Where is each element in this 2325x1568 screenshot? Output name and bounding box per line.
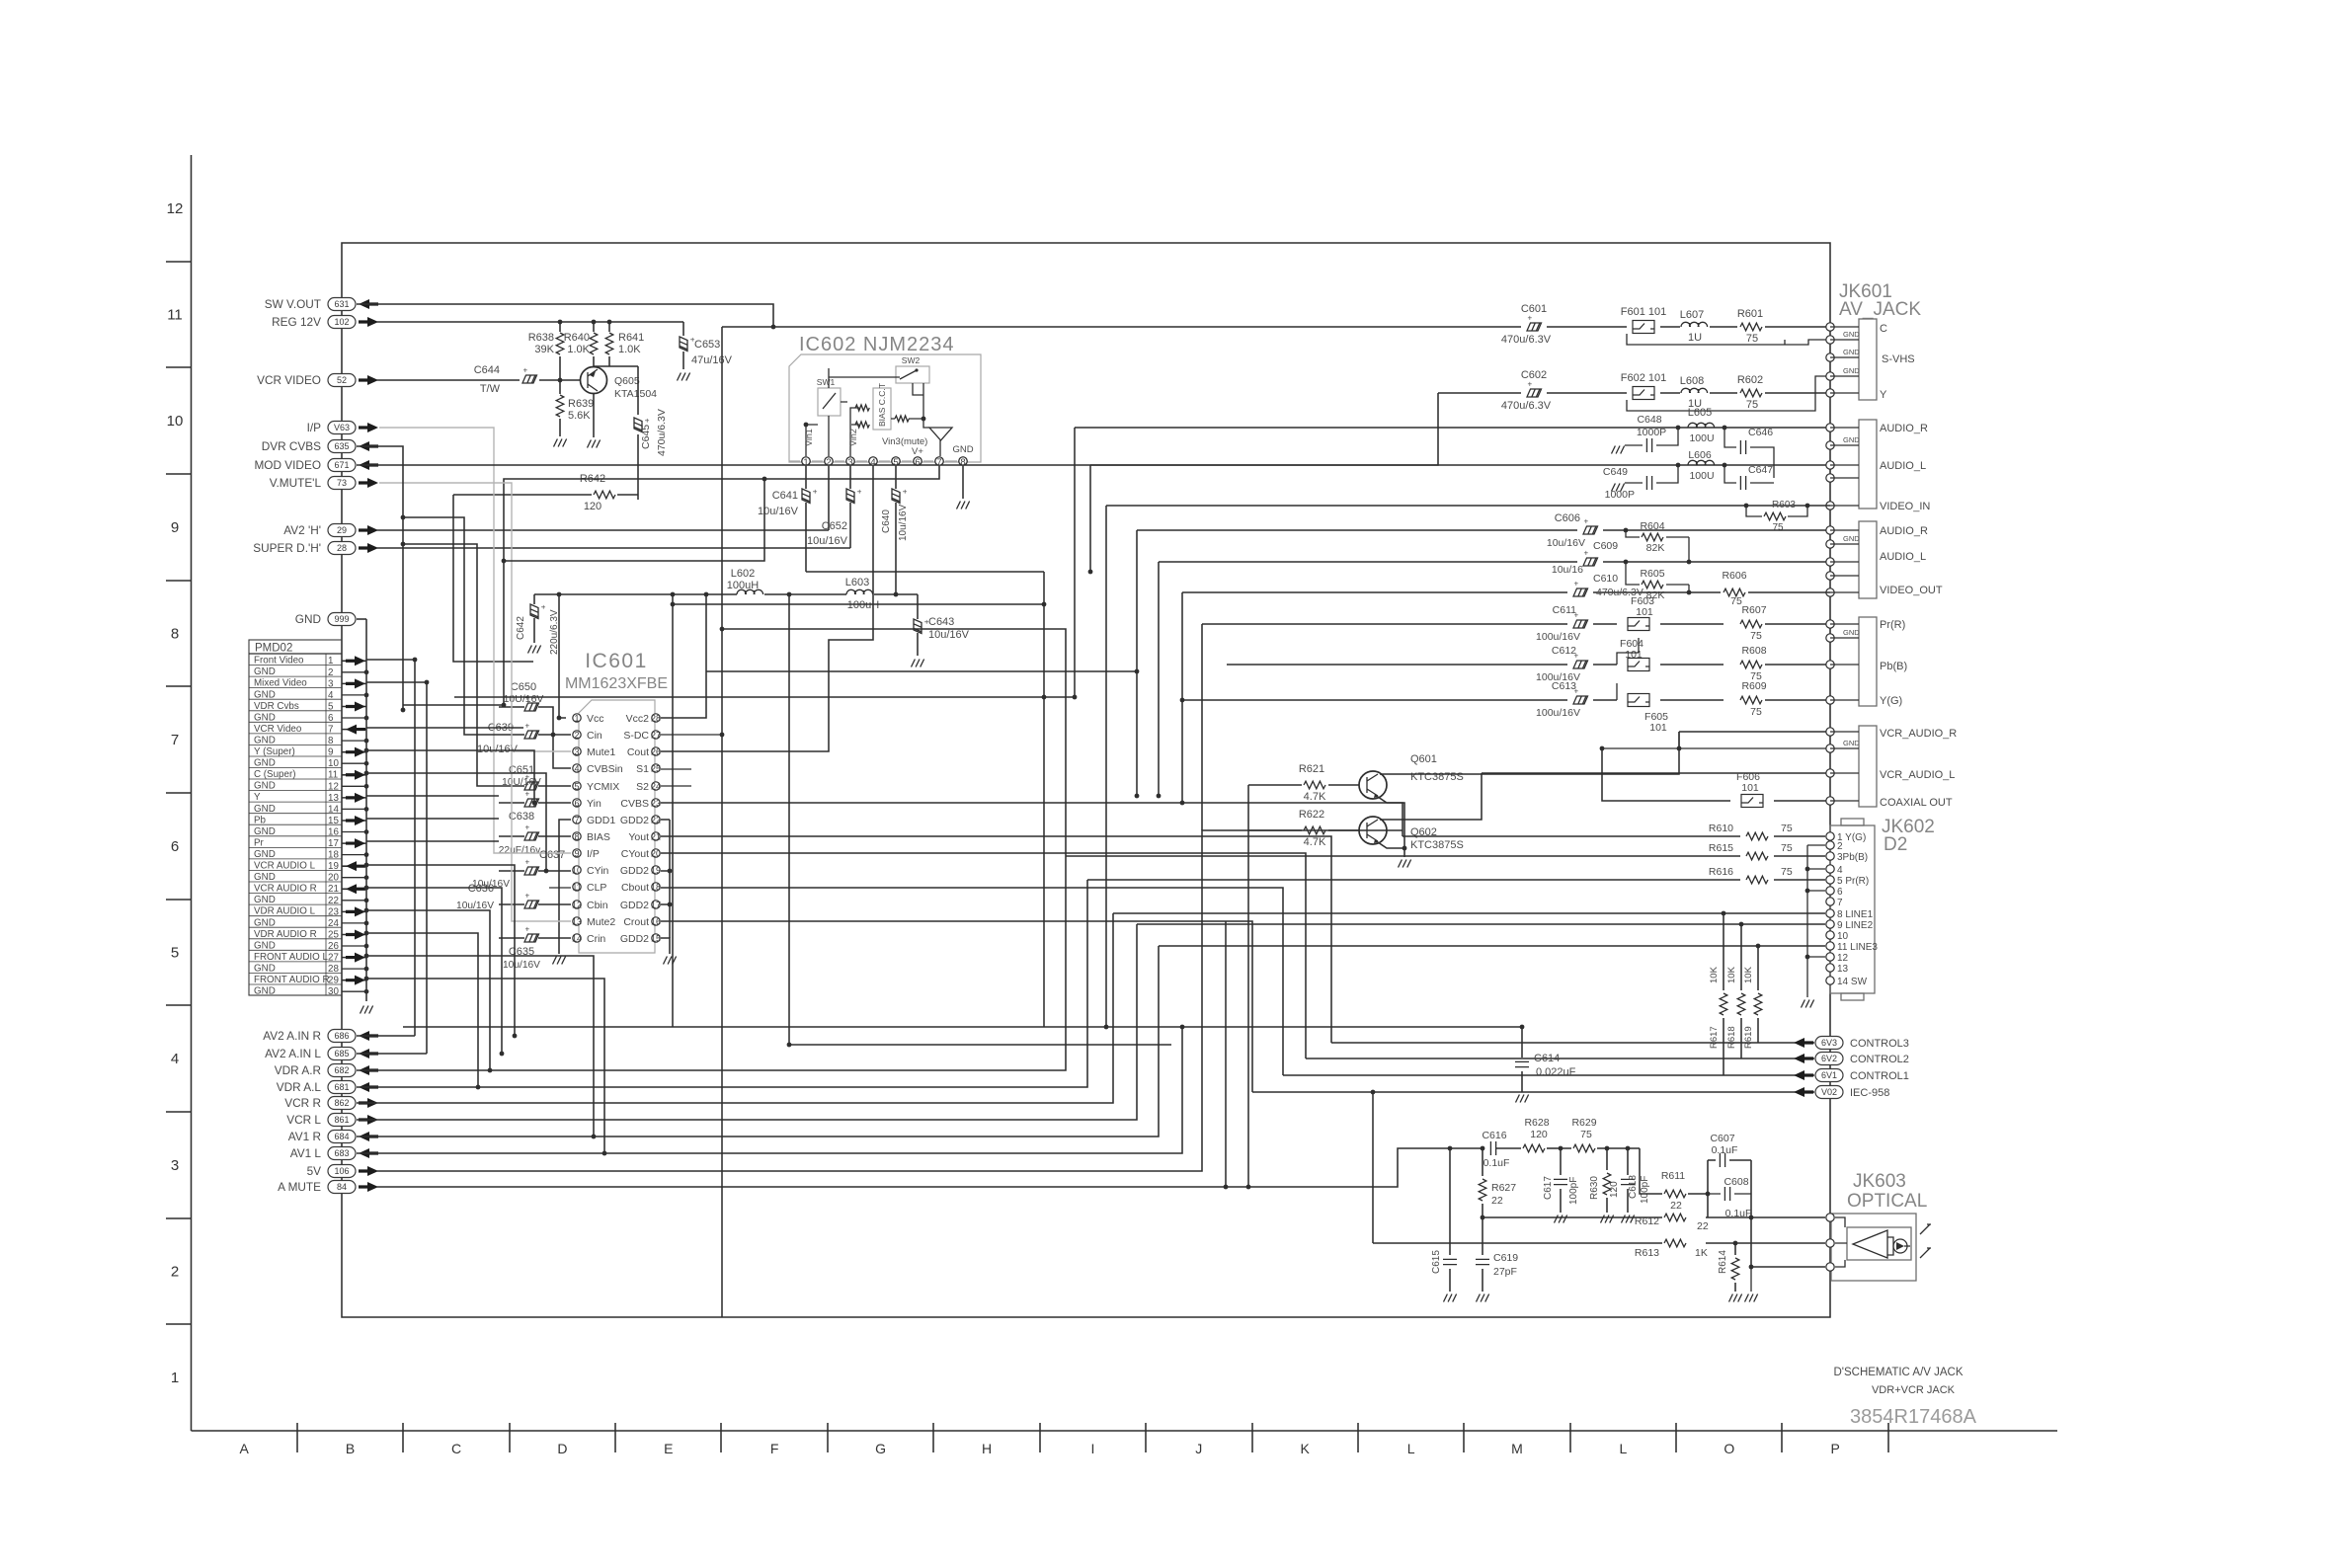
svg-text:VIDEO_OUT: VIDEO_OUT <box>1880 585 1943 596</box>
svg-text:JK603: JK603 <box>1853 1171 1906 1192</box>
wire IC602 pin4 from Cout <box>661 466 873 751</box>
wire R613 row <box>1373 1242 1825 1244</box>
svg-text:3: 3 <box>574 746 579 756</box>
IC601 pin 3 Mute1 <box>573 747 581 755</box>
svg-text:VCR L: VCR L <box>286 1113 321 1127</box>
svg-text:10u/16: 10u/16 <box>1552 564 1583 576</box>
PMD02 pin 11 wire <box>342 774 366 776</box>
PMD02 pin 14 gnd stub <box>342 808 366 810</box>
svg-text:S-DC: S-DC <box>623 730 649 742</box>
port CONTROL2 (6V2) <box>1306 1058 1814 1059</box>
svg-text:H: H <box>982 1441 992 1456</box>
svg-text:GND: GND <box>254 781 276 792</box>
wire branch to C639 <box>403 517 499 735</box>
wire C602 row <box>357 393 1830 465</box>
svg-text:Cout: Cout <box>627 746 649 758</box>
resistor R627 <box>1482 1148 1483 1217</box>
resistor R615 row <box>1066 855 1825 857</box>
svg-text:7: 7 <box>1837 898 1843 908</box>
resistor R608 <box>1740 661 1762 668</box>
svg-text:3854R17468A: 3854R17468A <box>1850 1406 1977 1428</box>
resistor R638 <box>559 322 561 378</box>
svg-text:100pF: 100pF <box>1640 1176 1650 1204</box>
svg-text:5: 5 <box>574 781 579 791</box>
fuse F605 <box>1628 694 1649 707</box>
svg-text:S-VHS: S-VHS <box>1882 353 1915 365</box>
wire pin19 riser <box>366 865 515 1036</box>
svg-text:R612: R612 <box>1635 1215 1659 1227</box>
svg-text:C609: C609 <box>1593 540 1618 552</box>
JK602 pin 5 <box>1826 876 1834 884</box>
ground under IC601 right <box>664 957 677 965</box>
svg-text:CLP: CLP <box>587 882 606 894</box>
capacitor C614 <box>1521 1027 1523 1092</box>
svg-text:11: 11 <box>167 306 183 323</box>
svg-text:2: 2 <box>171 1264 179 1281</box>
svg-text:28: 28 <box>651 713 661 723</box>
wire row 568 <box>504 479 764 561</box>
capacitor C644 <box>376 379 554 381</box>
svg-text:75: 75 <box>1781 866 1793 878</box>
svg-text:C651: C651 <box>509 764 534 776</box>
port CONTROL1 (6V1) <box>1283 1074 1814 1076</box>
svg-text:C615: C615 <box>1431 1250 1442 1274</box>
JK602 pin 9 <box>1826 920 1834 928</box>
svg-text:8: 8 <box>574 831 579 841</box>
svg-text:T/W: T/W <box>480 383 501 395</box>
svg-text:14 SW: 14 SW <box>1837 977 1868 987</box>
IC601 pin 12 Cbin <box>573 901 581 908</box>
JK602 pin 6 <box>1826 887 1834 895</box>
wire pin29 riser <box>366 979 604 1153</box>
svg-text:CVBSin: CVBSin <box>587 763 623 775</box>
svg-text:GND: GND <box>952 444 973 455</box>
gray net I/P to pin9 <box>379 428 571 853</box>
wire IC602 pin1 feed <box>806 571 1044 573</box>
svg-text:1000P: 1000P <box>1605 489 1635 501</box>
svg-text:R614: R614 <box>1718 1250 1728 1274</box>
svg-text:R619: R619 <box>1743 1026 1754 1049</box>
wire AUDIO_R row 2 <box>1137 529 1830 531</box>
transistor Q602 KTC3875S <box>1359 817 1387 844</box>
PMD02 pin 10 gnd stub <box>342 762 366 764</box>
wire F605 link <box>1616 683 1618 700</box>
wire C644 to base <box>554 379 580 381</box>
IC601 pin 24 S2 <box>652 782 660 790</box>
IC601 pin 27 S-DC <box>652 731 660 739</box>
svg-text:R610: R610 <box>1709 823 1733 834</box>
svg-text:Q601: Q601 <box>1410 753 1437 765</box>
svg-text:GND: GND <box>1843 435 1860 444</box>
JK601 jack body 4 <box>1859 617 1877 706</box>
capacitor C601 <box>1527 314 1542 332</box>
JK601 gnd stubs top <box>1830 340 1859 376</box>
svg-text:D'SCHEMATIC A/V JACK: D'SCHEMATIC A/V JACK <box>1833 1367 1963 1378</box>
svg-text:6: 6 <box>1837 887 1843 898</box>
PMD02 pin 25 wire <box>342 934 366 936</box>
capacitor C612 <box>1573 652 1588 669</box>
svg-text:BIAS: BIAS <box>587 831 610 843</box>
svg-text:4: 4 <box>171 1051 179 1067</box>
svg-text:5V: 5V <box>307 1164 322 1178</box>
capacitor C607 loop <box>1708 1160 1751 1267</box>
ground under R639 <box>554 439 567 447</box>
port IEC-958 (V02) <box>1252 1091 1814 1093</box>
PMD02 pin 20 gnd stub <box>342 877 366 879</box>
wire bus x799 <box>789 595 1171 1045</box>
svg-text:VCR Video: VCR Video <box>254 724 302 735</box>
wire VIDEO_OUT row <box>1182 591 1830 593</box>
wire pin23 riser <box>366 910 490 1070</box>
capacitor C635 <box>499 937 571 939</box>
svg-text:27: 27 <box>651 730 661 740</box>
svg-text:5: 5 <box>171 944 179 961</box>
svg-text:C618: C618 <box>1628 1175 1639 1199</box>
wire VCR_AUDIO gnd row <box>1602 747 1830 749</box>
wire C650 to CVBSin pin4 <box>553 735 571 768</box>
svg-text:C601: C601 <box>1521 303 1547 315</box>
svg-text:FRONT AUDIO R: FRONT AUDIO R <box>254 975 330 985</box>
svg-text:VCR R: VCR R <box>284 1096 321 1110</box>
svg-text:FRONT AUDIO L: FRONT AUDIO L <box>254 952 328 963</box>
svg-text:GND: GND <box>1843 348 1860 356</box>
wire AUDIO_R row 1 <box>1075 427 1830 429</box>
wire GDD row stub to bundle <box>1225 921 1227 1187</box>
resistor R619 <box>1757 946 1759 1043</box>
ground under C619 <box>1477 1294 1489 1302</box>
ground under C643 <box>912 660 924 667</box>
svg-text:82K: 82K <box>1646 542 1665 554</box>
wire Q605 collector to R641/C645 <box>594 365 638 367</box>
svg-text:1U: 1U <box>1688 332 1702 344</box>
PMD02 ground bus <box>365 619 367 1001</box>
svg-text:75: 75 <box>1781 842 1793 854</box>
PMD02 pin 3 wire <box>342 682 366 684</box>
svg-text:101: 101 <box>1636 606 1653 618</box>
capacitor C613 <box>1573 687 1588 705</box>
svg-text:100U: 100U <box>1689 470 1714 482</box>
svg-text:C640: C640 <box>881 510 892 533</box>
svg-text:6: 6 <box>915 457 920 468</box>
svg-text:AUDIO_R: AUDIO_R <box>1880 423 1928 434</box>
capacitor C619 <box>1482 1217 1483 1292</box>
JK602 pin 7 <box>1826 898 1834 905</box>
svg-text:CONTROL2: CONTROL2 <box>1850 1054 1909 1065</box>
svg-text:10: 10 <box>572 865 582 875</box>
IC601 pin 4 CVBSin <box>573 764 581 772</box>
ground under Q602 <box>1399 860 1411 868</box>
svg-text:M: M <box>1511 1441 1523 1456</box>
svg-text:23: 23 <box>651 798 661 808</box>
IC601 pin 15 GDD2 <box>652 934 660 942</box>
ground under C642 <box>528 646 541 654</box>
capacitor C610 <box>1573 580 1588 597</box>
svg-text:Mixed Video: Mixed Video <box>254 678 307 689</box>
svg-text:7: 7 <box>171 732 179 748</box>
svg-text:VDR A.L: VDR A.L <box>277 1080 322 1094</box>
PMD02 pin 15 wire <box>342 820 366 822</box>
svg-text:AV2 A.IN L: AV2 A.IN L <box>265 1047 321 1060</box>
svg-text:VCR_AUDIO_L: VCR_AUDIO_L <box>1880 769 1955 781</box>
svg-text:COAXIAL OUT: COAXIAL OUT <box>1880 797 1953 809</box>
svg-text:Vcc2: Vcc2 <box>626 713 650 725</box>
svg-text:VCR AUDIO L: VCR AUDIO L <box>254 861 316 872</box>
svg-text:V63: V63 <box>334 423 350 432</box>
svg-text:3Pb(B): 3Pb(B) <box>1837 852 1868 863</box>
amp triangle inside IC602 <box>929 428 952 440</box>
svg-text:GDD1: GDD1 <box>587 815 615 826</box>
svg-text:22uF/16v: 22uF/16v <box>499 845 541 856</box>
wire Q601/Q602 emitters to ground <box>1378 797 1404 857</box>
PMD02 pin 27 wire <box>342 957 366 959</box>
JK603 connector body <box>1831 1214 1916 1281</box>
wire pin15 row <box>366 818 499 820</box>
svg-text:I/P: I/P <box>587 848 600 860</box>
svg-text:V02: V02 <box>1821 1087 1837 1097</box>
wire VCR R to LINE1 <box>357 913 1113 1103</box>
capacitor C645 <box>637 366 639 500</box>
svg-text:GND: GND <box>254 986 276 997</box>
svg-text:GND: GND <box>254 666 276 677</box>
capacitor C651 <box>499 785 571 787</box>
connector PMD02 <box>249 640 342 995</box>
svg-text:R606: R606 <box>1722 570 1746 582</box>
svg-text:C641: C641 <box>772 490 798 502</box>
PMD02 pin 4 gnd stub <box>342 694 366 696</box>
capacitor C637 <box>499 870 571 872</box>
wire LINE3 row <box>1159 945 1825 947</box>
JK601 jack body 5 <box>1859 726 1877 807</box>
PMD02 pin 9 wire <box>342 751 366 753</box>
svg-text:681: 681 <box>334 1082 349 1092</box>
svg-text:YCMIX: YCMIX <box>587 781 619 793</box>
svg-text:Cbin: Cbin <box>587 900 608 911</box>
capacitor C648b Yin <box>499 802 571 804</box>
svg-text:AV2 A.IN R: AV2 A.IN R <box>263 1029 321 1043</box>
svg-text:F601 101: F601 101 <box>1621 306 1666 318</box>
svg-text:AV_JACK: AV_JACK <box>1839 299 1921 320</box>
svg-text:VDR AUDIO L: VDR AUDIO L <box>254 906 316 917</box>
wire SW V.OUT net <box>357 304 773 327</box>
svg-text:L606: L606 <box>1688 449 1712 461</box>
svg-text:C608: C608 <box>1724 1176 1748 1188</box>
svg-text:13: 13 <box>572 916 582 926</box>
svg-text:Crout: Crout <box>623 916 649 928</box>
svg-text:683: 683 <box>334 1148 349 1158</box>
svg-text:5.6K: 5.6K <box>568 410 591 422</box>
svg-text:20: 20 <box>651 848 661 858</box>
svg-text:R627: R627 <box>1491 1182 1516 1194</box>
svg-text:GND: GND <box>1843 534 1860 543</box>
svg-text:C646: C646 <box>1748 427 1773 438</box>
svg-text:VCR AUDIO R: VCR AUDIO R <box>254 884 317 895</box>
ground under R614 <box>1729 1294 1742 1302</box>
PMD02 pin 8 gnd stub <box>342 740 366 742</box>
JK602 pin 1 <box>1826 832 1834 840</box>
svg-text:27pF: 27pF <box>1493 1266 1517 1278</box>
wire LINE1 row <box>1113 912 1825 914</box>
svg-text:999: 999 <box>334 614 349 624</box>
svg-text:J: J <box>1195 1441 1202 1456</box>
svg-text:R604: R604 <box>1640 520 1664 532</box>
svg-text:C613: C613 <box>1552 680 1576 692</box>
PMD02 pin 23 wire <box>342 910 366 912</box>
svg-text:C616: C616 <box>1482 1130 1506 1141</box>
svg-text:100pF: 100pF <box>1568 1177 1579 1205</box>
svg-text:C614: C614 <box>1534 1053 1560 1064</box>
svg-text:47u/16V: 47u/16V <box>691 354 733 366</box>
svg-text:V+: V+ <box>912 446 923 457</box>
JK602 gnd bus <box>1807 845 1825 997</box>
svg-text:C642: C642 <box>516 616 526 640</box>
svg-text:R638: R638 <box>528 332 554 344</box>
wire Yout to CONTROL3 <box>661 836 1331 1043</box>
svg-text:C (Super): C (Super) <box>254 769 295 780</box>
svg-text:C644: C644 <box>474 364 500 376</box>
PMD02 pin 26 gnd stub <box>342 945 366 947</box>
svg-text:9: 9 <box>171 519 179 536</box>
svg-text:7: 7 <box>574 815 579 824</box>
svg-text:1K: 1K <box>1695 1247 1708 1259</box>
svg-text:R616: R616 <box>1709 866 1733 878</box>
IC601 pin 20 CYout <box>652 849 660 857</box>
svg-text:75: 75 <box>1580 1129 1592 1140</box>
svg-text:685: 685 <box>334 1049 349 1058</box>
svg-text:120: 120 <box>584 501 601 512</box>
svg-text:R641: R641 <box>618 332 644 344</box>
svg-text:101: 101 <box>1649 722 1667 734</box>
wire VDR A.L to R616 <box>357 880 1087 1087</box>
svg-text:C619: C619 <box>1493 1252 1518 1264</box>
svg-text:10U/16V: 10U/16V <box>502 777 541 788</box>
wire S-DC pin27 stub <box>661 734 722 736</box>
wire Crout to IEC-958 <box>661 921 1252 1092</box>
resistor R611 <box>1664 1190 1686 1198</box>
wire VIDEO_IN row <box>1106 505 1830 507</box>
svg-text:19: 19 <box>651 865 661 875</box>
svg-text:R630: R630 <box>1589 1176 1600 1200</box>
svg-text:11 LINE3: 11 LINE3 <box>1837 942 1878 953</box>
wire pin3 riser to AV2 A.IN L <box>357 682 427 1054</box>
svg-text:R601: R601 <box>1737 308 1763 320</box>
wire F603/F604 link <box>1617 638 1639 665</box>
capacitor C639 <box>499 734 571 736</box>
IC601 pin 16 Crout <box>652 917 660 925</box>
JK602 pin 14 <box>1826 977 1834 984</box>
svg-text:682: 682 <box>334 1065 349 1075</box>
svg-text:R609: R609 <box>1741 680 1766 692</box>
JK602 pin 2 <box>1826 841 1834 849</box>
wire pin5 row extension <box>403 704 504 706</box>
svg-text:6: 6 <box>171 838 179 855</box>
svg-text:GND: GND <box>254 758 276 769</box>
svg-text:Pr(R): Pr(R) <box>1880 619 1905 631</box>
svg-text:VCR VIDEO: VCR VIDEO <box>257 373 321 387</box>
svg-text:R629: R629 <box>1571 1117 1596 1129</box>
fuse F604 <box>1628 659 1649 671</box>
svg-text:R605: R605 <box>1640 568 1664 580</box>
wire Pb row <box>1227 664 1830 666</box>
wire pin11 riser to CYin <box>366 773 546 871</box>
svg-text:IEC-958: IEC-958 <box>1850 1087 1889 1099</box>
svg-text:10u/16V: 10u/16V <box>807 535 848 547</box>
wire row 706 <box>454 696 1075 698</box>
IC601 pin 22 GDD2 <box>652 816 660 823</box>
svg-text:GND: GND <box>254 849 276 860</box>
svg-text:MOD VIDEO: MOD VIDEO <box>254 458 321 472</box>
svg-text:631: 631 <box>334 299 349 309</box>
wire IC602 pin7 row <box>504 466 939 705</box>
resistor R617 <box>1723 913 1724 1075</box>
svg-text:R640: R640 <box>564 332 590 344</box>
wire REG 12V rail <box>376 321 683 323</box>
svg-text:7: 7 <box>936 457 941 468</box>
svg-text:C: C <box>451 1441 461 1456</box>
wire AV1 R to LINE3 <box>357 946 1159 1137</box>
svg-text:10K: 10K <box>1726 966 1737 983</box>
svg-text:470u/6.3V: 470u/6.3V <box>656 409 668 456</box>
IC601 pin 11 CLP <box>573 883 581 891</box>
svg-text:PMD02: PMD02 <box>255 643 292 655</box>
IC602 internal wires <box>806 425 818 456</box>
capacitor C609 <box>1583 549 1598 567</box>
wire pin21 riser <box>366 888 502 1054</box>
ground under IC601 left <box>553 957 566 965</box>
svg-text:C653: C653 <box>694 339 720 351</box>
PMD02 pin 6 gnd stub <box>342 717 366 719</box>
IC601 pin 19 GDD2 <box>652 866 660 874</box>
transistor Q601 KTC3875S <box>1359 771 1387 799</box>
svg-text:30: 30 <box>328 986 339 997</box>
svg-text:75: 75 <box>1750 630 1762 642</box>
wire audio rows left risers <box>1137 530 1202 830</box>
switch SW1 inside IC602 <box>818 388 841 416</box>
svg-text:Vin2: Vin2 <box>848 429 858 446</box>
transistor Q605 KTA1504 <box>581 367 607 394</box>
PMD02 pin 29 wire <box>342 980 366 981</box>
wire gnd bus right <box>1784 340 1786 345</box>
wire CLP pin11 stub <box>549 887 571 889</box>
wire VCR_AUDIO_L row <box>1482 772 1830 774</box>
JK602 pin 4 <box>1826 865 1834 873</box>
svg-text:SW V.OUT: SW V.OUT <box>265 297 321 311</box>
ground under Q605 <box>588 440 601 448</box>
svg-text:C645: C645 <box>640 425 652 449</box>
JK601 jack body 1 <box>1859 319 1877 400</box>
svg-text:862: 862 <box>334 1098 349 1108</box>
JK602 pin 8 <box>1826 909 1834 917</box>
wire VCR_AUDIO_R riser <box>1678 732 1680 748</box>
capacitor C618 <box>1627 1148 1629 1213</box>
svg-text:IC602 NJM2234: IC602 NJM2234 <box>799 334 955 355</box>
svg-text:GDD2: GDD2 <box>620 933 649 945</box>
svg-text:2: 2 <box>826 457 831 468</box>
svg-text:R618: R618 <box>1726 1026 1737 1049</box>
svg-text:0.022uF: 0.022uF <box>1536 1066 1576 1078</box>
IC601 pin 1 Vcc <box>573 714 581 722</box>
capacitor C640 <box>895 466 897 594</box>
svg-text:D2: D2 <box>1884 834 1907 855</box>
svg-text:GDD2: GDD2 <box>620 865 649 877</box>
svg-text:R602: R602 <box>1737 374 1763 386</box>
IC601 pin 28 Vcc2 <box>652 714 660 722</box>
JK603 light rays <box>1920 1224 1931 1258</box>
svg-text:L: L <box>1407 1441 1415 1456</box>
JK601 jack body 2 <box>1859 420 1877 509</box>
resistor R604 <box>1632 536 1689 538</box>
svg-text:10u/16V: 10u/16V <box>503 960 540 971</box>
svg-text:Mute2: Mute2 <box>587 916 615 928</box>
